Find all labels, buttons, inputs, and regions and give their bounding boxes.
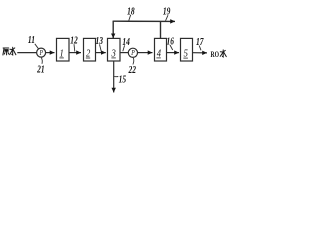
svg-text:21: 21: [36, 63, 44, 74]
svg-text:RO: RO: [211, 50, 220, 59]
svg-text:22: 22: [128, 64, 137, 75]
svg-text:P: P: [39, 50, 44, 58]
svg-text:18: 18: [127, 5, 135, 16]
svg-text:P: P: [130, 50, 135, 58]
svg-text:17: 17: [196, 36, 204, 47]
svg-text:16: 16: [167, 35, 175, 46]
svg-text:15: 15: [119, 74, 127, 85]
svg-text:13: 13: [95, 35, 103, 46]
svg-text:19: 19: [163, 6, 171, 17]
svg-text:11: 11: [28, 34, 35, 45]
svg-text:14: 14: [122, 36, 130, 47]
svg-text:12: 12: [70, 34, 78, 45]
